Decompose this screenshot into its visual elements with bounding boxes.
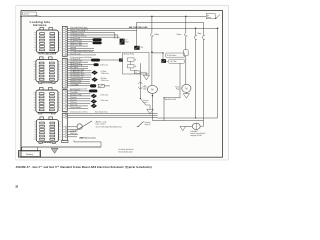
- motor cable pill label: [166, 59, 185, 63]
- wire X2 pin 5 (ATC Valve): [67, 66, 88, 69]
- svg-text:Pump: Pump: [176, 88, 180, 90]
- wire X3 pin 5 (Interaxle): [67, 98, 90, 101]
- title Looking Into Harness: [30, 20, 51, 27]
- bus wire battery feed (top): [20, 16, 206, 18]
- motor M2 (ECU solenoid): [175, 84, 191, 92]
- schematic border frame: [21, 11, 223, 158]
- svg-text:Link: Link: [135, 72, 138, 74]
- ignition switch: [206, 14, 220, 19]
- inline connector pair: [90, 84, 110, 87]
- svg-text:equipped (In-Cab): equipped (In-Cab): [190, 135, 202, 137]
- wire diag down right: [158, 28, 218, 118]
- pressure switch: [140, 98, 150, 109]
- svg-text:M: M: [151, 89, 153, 92]
- wire lamp feed: [200, 121, 203, 127]
- strip base: [62, 140, 68, 142]
- svg-text:X4 Gray: X4 Gray: [44, 141, 52, 144]
- wire below motor: [152, 93, 204, 120]
- wire X1 pin 12 (I/O Single Wheel (S/W) Control): [67, 50, 121, 53]
- connector E (LF modulator): [120, 39, 129, 45]
- wire bundle to trailer: [67, 111, 157, 118]
- wire X1 pin 1 (Stop Light Switch Input): [67, 26, 217, 29]
- wire X1 pin 2 (Ignition Power Feed 12V): [67, 28, 136, 46]
- wire X3 pin 2 (Drive Axle): [67, 91, 90, 94]
- relay coil box: [127, 58, 136, 62]
- bus wire diagnostics junctions: [195, 28, 219, 30]
- wire strip to battery bus: [74, 140, 101, 147]
- wire lamp to ground: [186, 125, 193, 127]
- wire X1 pin 11 (Ground): [67, 48, 94, 51]
- svg-text:Pressure: Pressure: [143, 100, 148, 102]
- wire X2 pin 13 (Trailer ABS): [67, 83, 90, 86]
- wire X1 pin 13 (Interaxle Lock): [67, 52, 96, 55]
- 2-wire connector (RR modulator): [91, 77, 108, 82]
- connector X2 (Green) looking-into-harness view: [33, 57, 62, 83]
- ECU connector strip X2 segment: [62, 58, 67, 88]
- wire X2 pin 6 (LR Modulator Hold): [67, 68, 91, 71]
- trailer ABS lamp: [192, 123, 200, 129]
- wire X4 pin 5: [67, 129, 78, 132]
- wire X2 pin 3 (RR Sensor IN): [67, 62, 93, 65]
- fused feed to pump motor: [151, 16, 160, 85]
- ECU connector strip X3 segment: [62, 90, 67, 112]
- svg-text:2-Wire Conn: 2-Wire Conn: [101, 80, 109, 82]
- trailer lamp labels: [190, 130, 206, 137]
- relay ground wire: [140, 72, 146, 75]
- ground (M2): [183, 94, 189, 99]
- svg-text:M: M: [185, 88, 187, 91]
- retarder relay symbol: [137, 121, 151, 127]
- connector H (pump motor): [161, 59, 166, 63]
- connector blob (LR sensor): [91, 59, 100, 62]
- wire motor return: [163, 97, 180, 120]
- connector blob (RR sensor): [94, 63, 109, 66]
- 2-wire connector A: [91, 94, 109, 99]
- wire frame-left battery feed: [20, 16, 22, 150]
- wire X4 pin 6: [67, 132, 77, 135]
- ground (battery): [51, 148, 58, 153]
- svg-text:Dash - Lamp 2: Dash - Lamp 2: [96, 124, 106, 126]
- wire X3 pin 7 (Spare I/O): [67, 103, 88, 106]
- wire X1 pin 10 (Ground): [67, 46, 94, 49]
- ECU connector strip X4 segment: [62, 113, 67, 141]
- wire to relay coil: [100, 59, 119, 61]
- wire X1 pin 6 (LF Sensor IN): [67, 37, 92, 40]
- wire X3 pin 6 (Diff Lock): [67, 102, 90, 104]
- ECU connector strip X1 segment: [62, 27, 67, 57]
- wire X2 pin 4 (RR Sensor RTN): [67, 64, 88, 67]
- svg-text:LR Valve: LR Valve: [101, 71, 107, 73]
- fused diag branch: [203, 22, 205, 120]
- svg-text:FIGURE 27 - Gen 4™ and Gen 5™: FIGURE 27 - Gen 4™ and Gen 5™ Standard F…: [16, 166, 152, 169]
- connector C (ATC valve): [134, 46, 143, 50]
- wire X2 pin 2 (LR Sensor RTN): [67, 60, 88, 63]
- svg-text:Harness: Harness: [33, 23, 46, 27]
- svg-text:Mod: Mod: [126, 42, 129, 44]
- wire X1 pin 3 (Diagnostics J1587 B): [67, 30, 115, 38]
- wire relay to motor box: [152, 52, 163, 59]
- wire warning lamp: [67, 126, 77, 128]
- svg-text:TMC: TMC: [140, 47, 143, 49]
- svg-text:Diff Lock: Diff Lock: [70, 102, 77, 104]
- wire X3 pin 3 (Modulator GND): [67, 93, 90, 96]
- svg-text:RR Valve: RR Valve: [101, 78, 107, 80]
- 2-wire connector (LR modulator): [91, 70, 108, 75]
- svg-text:S2: S2: [144, 86, 146, 88]
- warning lamp labels: [96, 120, 122, 128]
- pump motor label box: [166, 53, 185, 57]
- bus wire ignition: [137, 22, 204, 30]
- wire X1 pin 9 (Reference GND): [67, 44, 88, 47]
- fused ignition branch: [195, 28, 202, 118]
- wire to pressure switch: [139, 63, 146, 98]
- connector X3 (Brown) looking-into-harness view: [33, 88, 62, 114]
- wire X2 pin 10 (Common Ground): [67, 77, 90, 80]
- svg-text:X3 Brown: X3 Brown: [42, 113, 52, 115]
- battery note: [118, 148, 133, 153]
- 2-pin connector blob (LF sensor): [93, 38, 102, 44]
- svg-text:Gen 4 / 5 ECU Single Wheel (S/: Gen 4 / 5 ECU Single Wheel (S/W) or 4x4: [96, 126, 122, 128]
- relay fuse link: [131, 61, 140, 74]
- wire X3 pin 1 (ATC/Stability): [67, 88, 89, 91]
- ABS warning lamp: [77, 121, 92, 130]
- svg-text:2-Wire Conn: 2-Wire Conn: [100, 100, 108, 102]
- battery B1: [19, 147, 41, 157]
- fused feed to ECU: [177, 16, 189, 84]
- 2-wire connector C: [91, 104, 97, 109]
- svg-text:2-Wire Conn: 2-Wire Conn: [100, 65, 108, 67]
- revision tag box: [23, 12, 41, 17]
- wire X2 pin 7 (LR Modulator Rel): [67, 70, 91, 73]
- ground (relay): [143, 75, 149, 80]
- wire X3 pin 4 (Retarder): [67, 96, 90, 99]
- svg-text:X1 Black: X1 Black: [43, 54, 52, 56]
- svg-text:SAE J1587 DIAG LINK: SAE J1587 DIAG LINK: [129, 26, 148, 29]
- wire X1 pin 4 (LF Modulator Hold): [67, 32, 118, 38]
- wire X2 pin 1 (LR Sensor IN): [67, 58, 91, 61]
- svg-text:ABS Harness Conn: ABS Harness Conn: [79, 136, 95, 139]
- 2-wire connector B: [91, 99, 109, 104]
- wire X1 pin 8 (Reference GND): [67, 41, 88, 44]
- modulator relay box: [123, 52, 150, 74]
- wire pump motor feed: [179, 63, 181, 97]
- svg-text:Battery: Battery: [26, 153, 34, 156]
- motor M1 (pump): [143, 85, 157, 93]
- svg-text:Relay (2): Relay (2): [145, 124, 151, 126]
- wire X2 pin 11 (Retarder Relay): [67, 79, 90, 82]
- figure background: [16, 5, 229, 160]
- wire X4 pin 7: [67, 133, 78, 135]
- connector X1 (Black) looking-into-harness view: [33, 28, 62, 54]
- wire X2 pin 9 (RR Modulator Rel): [67, 75, 91, 78]
- svg-text:Lamp GND: Lamp GND: [70, 130, 78, 132]
- page edge (scan border): [16, 5, 229, 160]
- connector X4 (Gray) looking-into-harness view: [33, 117, 62, 143]
- ground (pressure switch): [147, 109, 154, 114]
- svg-text:X2 Green: X2 Green: [43, 83, 53, 85]
- connector F (relay coil feed): [119, 59, 123, 62]
- battery bus wire: [22, 146, 101, 148]
- ground (trailer lamp): [180, 126, 186, 130]
- wire X1 pin 5 (LF Modulator Release): [67, 35, 119, 38]
- relay contact box: [127, 65, 136, 68]
- svg-text:LF: LF: [126, 40, 128, 42]
- wire M2 to ground: [185, 92, 187, 93]
- svg-text:2-Wire Conn: 2-Wire Conn: [100, 95, 108, 97]
- connector blob (ATC): [89, 90, 97, 93]
- wire X4 pin 8: [67, 136, 77, 138]
- svg-text:M+ Cable: M+ Cable: [170, 61, 176, 63]
- wire X2 pin 8 (RR Modulator Hold): [67, 73, 91, 76]
- wire X2 pin 12 (Warning Lamp): [67, 81, 90, 84]
- wire X1 pin 7 (LF Sensor RTN): [67, 39, 92, 42]
- wire X3 pin 8 (Sensor Shield): [67, 106, 88, 109]
- svg-text:2-Wire Conn: 2-Wire Conn: [101, 73, 109, 75]
